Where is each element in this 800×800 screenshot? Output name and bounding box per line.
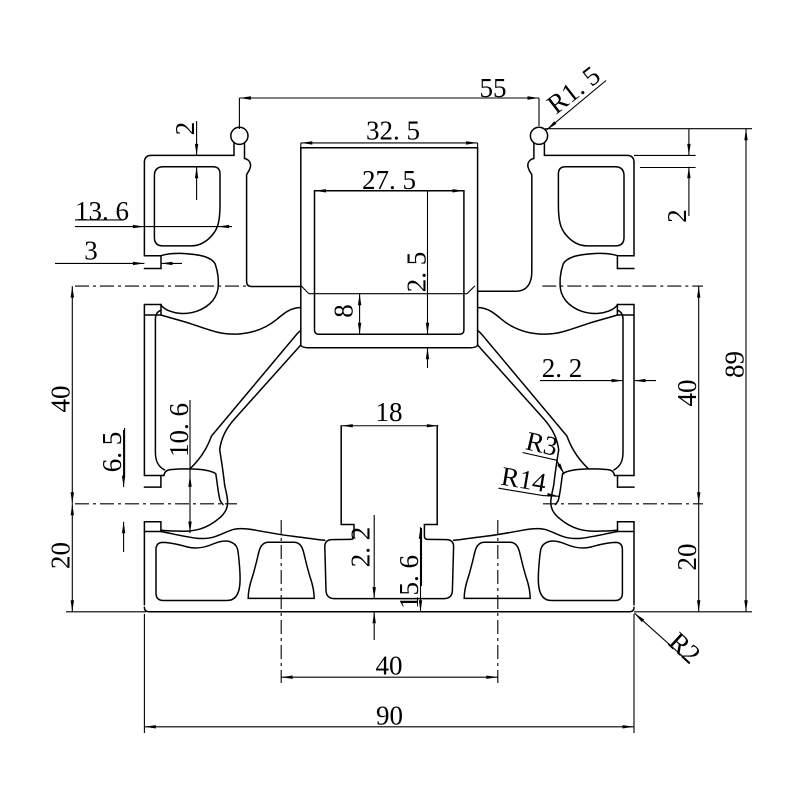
svg-text:40: 40	[46, 386, 76, 413]
svg-text:8: 8	[329, 304, 359, 318]
svg-text:40: 40	[672, 380, 702, 407]
svg-text:3: 3	[84, 236, 98, 266]
svg-text:10. 6: 10. 6	[164, 403, 194, 457]
svg-text:90: 90	[376, 701, 403, 731]
svg-text:20: 20	[46, 542, 76, 569]
svg-text:18: 18	[376, 397, 403, 427]
svg-text:89: 89	[720, 351, 750, 378]
svg-text:2: 2	[662, 209, 692, 223]
svg-text:2. 5: 2. 5	[402, 252, 432, 293]
svg-text:6. 5: 6. 5	[97, 432, 127, 473]
svg-text:2: 2	[170, 122, 200, 136]
svg-text:2. 2: 2. 2	[542, 353, 583, 383]
svg-text:40: 40	[376, 651, 403, 681]
svg-text:13. 6: 13. 6	[75, 196, 129, 226]
svg-text:20: 20	[672, 544, 702, 571]
svg-text:2. 2: 2. 2	[346, 527, 376, 568]
svg-text:32. 5: 32. 5	[366, 116, 420, 146]
svg-text:55: 55	[480, 73, 507, 103]
svg-text:15. 6: 15. 6	[394, 555, 424, 609]
svg-text:27. 5: 27. 5	[362, 165, 416, 195]
